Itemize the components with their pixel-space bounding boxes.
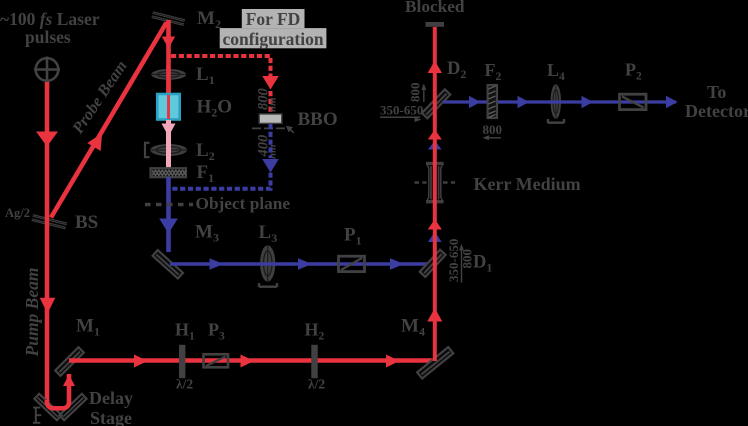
lens L2 <box>150 144 187 156</box>
arrow dashed red down <box>262 76 279 90</box>
bracket L3 <box>259 283 277 287</box>
arrow red up above M4 <box>427 308 442 322</box>
wire pump beam BS to delay <box>45 217 50 403</box>
label To Detector <box>685 82 748 121</box>
arrow blue up above Kerr <box>428 141 442 150</box>
delay stage mirror left <box>34 394 61 420</box>
rule with up arrow at D1 <box>459 244 464 283</box>
svg-text:pulses: pulses <box>25 27 71 47</box>
svg-text:nm: nm <box>267 97 279 112</box>
arrow blue down to M3 <box>159 219 178 234</box>
svg-text:Stage: Stage <box>90 408 132 426</box>
svg-text:Pump Beam: Pump Beam <box>22 268 42 358</box>
label For FD configuration <box>220 9 327 49</box>
label 800 nm <box>256 88 279 112</box>
arrow blue mid 1 <box>210 258 224 269</box>
svg-text:λ/2: λ/2 <box>176 377 193 392</box>
svg-text:800: 800 <box>483 122 503 137</box>
arrow pink down <box>162 124 176 137</box>
svg-text:Blocked: Blocked <box>405 0 465 16</box>
arrow pump bottom 3 <box>386 355 400 368</box>
object plane dashes <box>145 203 193 207</box>
svg-text:BS: BS <box>75 212 98 233</box>
lens L1 <box>151 69 186 80</box>
wire probe through L1 <box>166 66 171 95</box>
polarizer P3 <box>204 354 229 367</box>
BBO pointer arrow <box>291 130 294 133</box>
svg-text:configuration: configuration <box>222 29 323 49</box>
arrow red up below D2 <box>428 130 442 140</box>
wire pump horizontal bottom <box>69 358 436 362</box>
lens L3 <box>260 245 275 281</box>
cell H2O <box>157 94 180 120</box>
mirror M1 <box>55 347 84 376</box>
wire delay U-turn <box>47 374 69 408</box>
Kerr medium dashes <box>415 181 456 183</box>
waveplate H1 <box>179 345 185 378</box>
arrow blue top 3 <box>582 96 594 109</box>
mirror M4 <box>417 347 453 378</box>
wire pink beam <box>166 120 171 168</box>
arrow pump bottom 2 <box>241 355 255 368</box>
dashed red to BBO <box>269 91 273 113</box>
dashed blue corner to object <box>171 173 271 189</box>
arrow pump bottom 1 <box>134 355 148 368</box>
svg-text:Ag/2: Ag/2 <box>5 206 30 220</box>
Kerr medium cell <box>426 162 444 204</box>
svg-text:λ/2: λ/2 <box>308 377 325 392</box>
label ~100 fs Laser pulses <box>0 9 100 47</box>
wire probe beam diagonal <box>51 23 167 218</box>
wire blue horizontal mid <box>170 262 430 265</box>
arrow red up above D2 <box>428 61 442 73</box>
wire red vertical right column <box>433 27 437 361</box>
svg-text:~100 fs Laser: ~100 fs Laser <box>0 9 100 29</box>
bracket L2 <box>145 143 150 157</box>
arrow blue up at D1 <box>428 232 442 243</box>
arrow blue top 4 <box>666 96 678 109</box>
beamsplitter BS <box>31 214 67 229</box>
arrow probe down <box>162 37 175 49</box>
mirror M2 <box>151 11 185 26</box>
label Delay Stage <box>89 388 133 426</box>
svg-text:Detector: Detector <box>685 101 748 121</box>
wire white-light vertical blue <box>166 177 171 252</box>
bracket delay translation <box>33 408 41 423</box>
polarizer P1 <box>339 256 365 271</box>
bracket L4 <box>548 119 564 123</box>
delay stage mirror right <box>59 394 86 420</box>
arrow red up below Kerr <box>428 219 442 230</box>
dichroic D1 <box>420 250 446 277</box>
svg-text:800: 800 <box>408 83 423 103</box>
label 350-650 at D2 <box>380 103 423 123</box>
beam block <box>426 22 445 27</box>
wire red inside H2O <box>167 95 170 119</box>
BBO plane dashes <box>252 127 289 129</box>
wire pink through L2 <box>166 142 171 168</box>
arrow blue mid 2 <box>298 258 312 269</box>
filter F2 <box>488 85 497 118</box>
svg-text:Delay: Delay <box>89 388 133 408</box>
svg-text:BBO: BBO <box>298 109 338 130</box>
svg-text:Object plane: Object plane <box>196 194 291 213</box>
arrow blue mid 3 <box>390 258 404 269</box>
polarizer P2 <box>620 94 647 109</box>
lens L4 <box>551 84 561 119</box>
label 400 nm <box>256 135 279 159</box>
arrow blue top 2 <box>518 96 530 109</box>
arrow probe diagonal <box>87 129 109 151</box>
svg-text:To: To <box>707 82 726 102</box>
svg-text:For FD: For FD <box>246 9 301 29</box>
arrow dashed blue down <box>262 159 279 173</box>
svg-text:350-650: 350-650 <box>380 103 423 118</box>
svg-text:Kerr Medium: Kerr Medium <box>474 174 581 194</box>
dashed blue from BBO <box>269 124 273 158</box>
dashed red branch FD <box>171 56 271 76</box>
waveplate H2 <box>311 345 317 378</box>
label 800 below F2 with arrow <box>483 122 503 140</box>
rule with up arrow at D2 <box>421 84 426 103</box>
arrow laser down <box>36 132 58 147</box>
arrow pump down <box>40 298 56 314</box>
BBO crystal <box>259 114 282 123</box>
arrow blue top 1 <box>469 96 481 109</box>
wire probe vertical red <box>166 20 171 119</box>
laser source symbol <box>34 57 60 83</box>
wire blue horizontal top <box>443 100 676 103</box>
dichroic D2 <box>422 89 450 118</box>
mirror M3 <box>153 250 183 278</box>
filter F1 <box>151 168 187 177</box>
wire laser beam down to BS <box>45 82 50 217</box>
arrow delay up <box>63 375 75 387</box>
